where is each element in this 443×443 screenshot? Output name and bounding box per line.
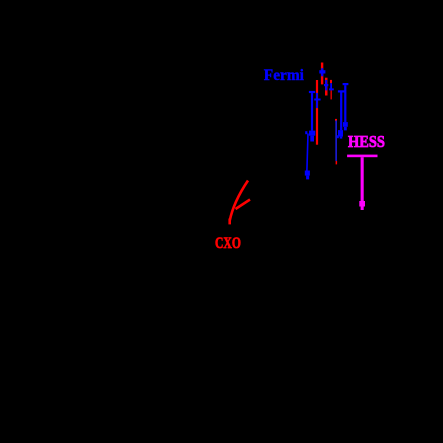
red error bar R2 (long bar) (316, 80, 318, 145)
blue Fermi error bar B4 (over red R2) (314, 93, 320, 108)
blue Fermi upper limit B7 (cap, bar, down arrow) (337, 90, 345, 138)
red CXO annotation arrow (curved shaft) (230, 181, 248, 221)
red error bar R3 (325, 78, 328, 96)
blue Fermi upper limit B3 (small marker + thin slanted down arrow) (305, 131, 310, 179)
red CXO arrow barb (236, 200, 251, 210)
blue Fermi error bar B5 (324, 80, 328, 90)
red CXO arrow tip (228, 219, 231, 225)
label CXO (215, 234, 241, 253)
label Fermi (264, 67, 304, 85)
blue cross marker B1 (319, 68, 325, 76)
navy Fermi error bar B9 (335, 121, 337, 161)
red error bar R4 lower fading part (330, 90, 332, 99)
red error bar R5 bottom tip (below navy bar) (336, 161, 338, 165)
blue Fermi upper limit B8 (cap, bar, down arrow) (343, 83, 349, 130)
red error bar R4 upper part (330, 80, 332, 83)
blue Fermi error bar B2 with top cap and down arrow (309, 91, 315, 142)
blue Fermi error bar B6 (329, 83, 334, 90)
red error bar R5 top cap (above navy bar) (335, 119, 337, 121)
magenta HESS upper limit (cap, bar, down arrow) (347, 155, 377, 210)
red error bar R1 (behind blue cross) (321, 63, 323, 85)
label HESS (348, 132, 385, 152)
